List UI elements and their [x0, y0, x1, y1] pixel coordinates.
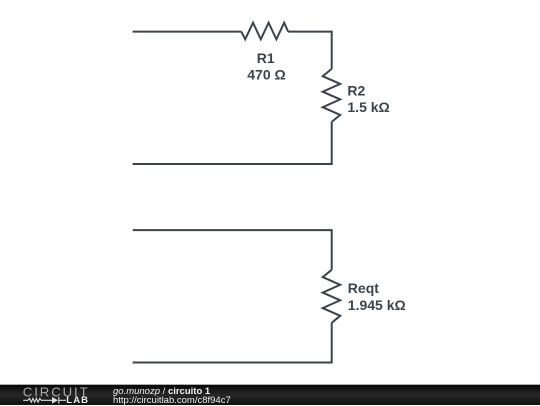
- wire from R1 to top-right corner and down to R2: [288, 32, 332, 69]
- svg-text:R1: R1: [257, 50, 275, 66]
- svg-text:1.5 kΩ: 1.5 kΩ: [347, 99, 389, 115]
- svg-text:1.945 kΩ: 1.945 kΩ: [348, 297, 406, 313]
- svg-text:LAB: LAB: [66, 395, 89, 406]
- footer bar top edge: [0, 384, 540, 385]
- svg-text:470 Ω: 470 Ω: [247, 66, 285, 82]
- resistor R1: [241, 23, 288, 40]
- CircuitLab logo: [0, 385, 100, 406]
- wire from R2 down and bottom horizontal back to left (top circuit): [133, 122, 332, 164]
- resistor R2: [323, 69, 341, 122]
- logo resistor zigzag and diode mark: [23, 397, 66, 404]
- wire top-left horizontal (top circuit, node between source side and R1): [133, 31, 242, 33]
- resistor Reqt: [323, 270, 341, 323]
- diode triangle: [52, 397, 58, 404]
- svg-text:R2: R2: [347, 83, 365, 99]
- wire from Reqt down and bottom horizontal back to left (bottom circuit): [133, 323, 332, 363]
- svg-text:Reqt: Reqt: [348, 280, 379, 296]
- footer line 1: circuit name: [113, 387, 210, 396]
- footer line 2: url: [113, 396, 231, 405]
- wire top horizontal of bottom circuit to corner and down to Reqt: [133, 230, 332, 270]
